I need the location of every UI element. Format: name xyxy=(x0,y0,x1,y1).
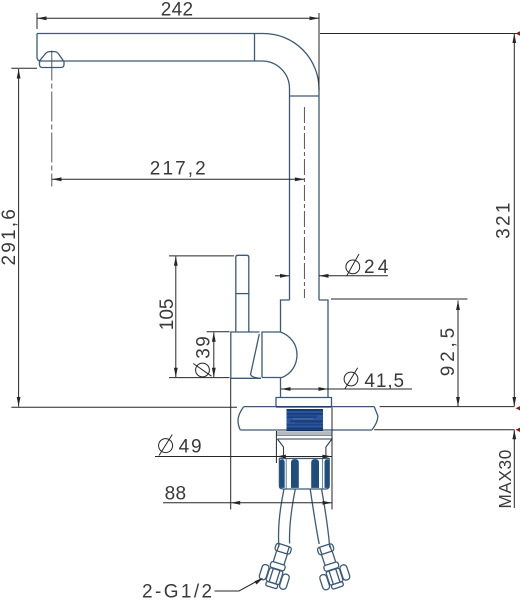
dimension 88 line xyxy=(163,502,332,504)
counter slab top edge left xyxy=(244,406,276,408)
dimension 88 arrow right xyxy=(323,501,333,505)
dimension 105/O39 extension bottom xyxy=(169,377,230,379)
dimension O39 phi symbol rotated xyxy=(193,363,211,377)
dimension 217,2 line xyxy=(52,178,304,180)
dimension 242 line xyxy=(37,17,319,19)
washer under counter xyxy=(276,431,333,435)
aerator centerline xyxy=(51,51,53,187)
dimension 92,5 arrow top xyxy=(456,301,460,311)
dimension 105 extension top xyxy=(169,255,234,257)
dimension 217,2 arrow left xyxy=(52,177,62,181)
handle mount block xyxy=(231,332,261,378)
dimension O24 arrow right xyxy=(319,274,329,278)
aerator ring block xyxy=(40,61,65,68)
spout top extension line to 321 xyxy=(320,33,519,35)
dimension O39 line xyxy=(213,332,215,377)
dimension O24 phi symbol xyxy=(346,254,360,276)
dimension 88 extension left xyxy=(230,379,232,510)
counter slab broken end left xyxy=(238,407,244,430)
mounting nut body xyxy=(279,459,329,490)
right hose end fitting xyxy=(311,541,352,592)
pipe seam below bend xyxy=(290,95,320,97)
faucet body cylinder xyxy=(281,300,329,398)
svg-text:105: 105 xyxy=(157,298,178,330)
counter reference line top right xyxy=(380,406,515,408)
dimension 105 arrow top xyxy=(174,256,178,266)
dimension O39 arrow bottom xyxy=(212,368,216,378)
dimension 242 extension line left xyxy=(36,13,38,29)
handle mount diagonal joint xyxy=(251,334,262,378)
spout tube inner profile xyxy=(40,61,290,96)
dimension 291,6 arrow bottom xyxy=(17,397,21,407)
red tick top right xyxy=(516,31,520,35)
spout seam at bend start xyxy=(254,34,256,62)
svg-text:49: 49 xyxy=(179,436,204,457)
svg-text:2-G1/2: 2-G1/2 xyxy=(142,581,215,600)
dimension O39 extension top xyxy=(207,331,230,333)
dimension O41,5 phi symbol xyxy=(344,368,358,390)
counter slab bottom edge left xyxy=(240,429,286,431)
dimension 291,6 arrow top xyxy=(17,69,21,79)
dimension O49 arrow right xyxy=(322,455,332,459)
svg-text:92,5: 92,5 xyxy=(438,324,459,376)
nut slot left middle xyxy=(291,459,298,487)
dimension 321 arrow top xyxy=(512,34,516,44)
counter level extension line left xyxy=(11,406,237,408)
handle lever rod xyxy=(236,255,249,332)
dimension 321 arrow bottom xyxy=(512,397,516,407)
dimension O24 arrow left xyxy=(280,274,290,278)
dimension MAX30 line xyxy=(513,430,515,508)
washer bottom edge xyxy=(276,435,333,437)
red tick counter top xyxy=(516,406,520,410)
left hose end fitting xyxy=(257,541,298,592)
dimension O39 arrow top xyxy=(212,332,216,342)
dimension 321 line xyxy=(513,34,515,407)
dimension 105 arrow bottom xyxy=(174,368,178,378)
dimension O24 tail left xyxy=(275,275,290,277)
svg-text:242: 242 xyxy=(161,0,194,20)
dimension 242 arrow left xyxy=(37,16,47,20)
dimension 242 arrow right xyxy=(310,16,320,20)
nut facet line right xyxy=(321,459,323,489)
nut facet line left xyxy=(285,459,287,489)
aerator nose dome xyxy=(40,52,64,61)
vertical pipe left edge xyxy=(289,96,291,300)
cone spacer trapezoid xyxy=(277,439,332,458)
dimension 92,5 line xyxy=(457,301,459,407)
left hose inner edge xyxy=(290,489,296,544)
dimension O49 extension left xyxy=(275,431,277,463)
dimension O41,5 arrow left xyxy=(281,387,291,391)
dimension 291,6 line xyxy=(18,69,20,407)
svg-text:39: 39 xyxy=(194,335,215,359)
left hose outer edge xyxy=(279,489,284,547)
counter slab broken end right xyxy=(372,407,378,430)
svg-text:217,2: 217,2 xyxy=(150,159,208,180)
label 2-G1/2 leader arrow xyxy=(255,578,264,585)
dimension O41,5 arrow right xyxy=(319,387,329,391)
label 2-G1/2 leader xyxy=(215,579,262,591)
svg-text:41,5: 41,5 xyxy=(364,371,405,392)
svg-text:24: 24 xyxy=(364,257,392,278)
threaded shank hatched section xyxy=(287,409,324,431)
flange bottom dark edge xyxy=(276,406,332,408)
dimension 242 extension line right xyxy=(318,13,320,90)
nut slot right middle xyxy=(312,459,319,487)
dimension 105 line xyxy=(175,256,177,377)
right hose inner edge xyxy=(310,489,319,544)
spout left end xyxy=(37,34,41,62)
dimension 88 arrow left xyxy=(231,501,241,505)
dimension 92,5 extension top xyxy=(331,298,468,300)
spout tube outer profile xyxy=(37,34,319,97)
red tick counter bottom xyxy=(516,428,520,432)
nut slot clipped left xyxy=(280,460,285,488)
svg-text:321: 321 xyxy=(493,200,514,239)
counter slab top edge right xyxy=(332,406,375,408)
dimension 92,5 arrow bottom xyxy=(456,397,460,407)
dome cap on body front xyxy=(262,332,297,378)
dimension 217,2 arrow right xyxy=(295,177,305,181)
dimension O49 arrow left xyxy=(276,455,286,459)
counter reference line bottom right xyxy=(374,429,514,431)
dimension O49 phi symbol xyxy=(159,435,173,456)
dimension 291,6 extension top xyxy=(11,67,37,69)
right hose outer edge xyxy=(322,489,330,547)
dimension O24 leader right xyxy=(319,275,388,277)
vertical pipe right edge xyxy=(318,96,320,300)
svg-text:MAX30: MAX30 xyxy=(495,449,515,508)
pipe centerline dash-dot xyxy=(303,107,305,298)
svg-text:291,6: 291,6 xyxy=(0,207,20,266)
dimension O49 line xyxy=(155,456,332,458)
svg-text:88: 88 xyxy=(165,483,187,504)
dimension 88 extension right xyxy=(331,408,333,510)
base flange xyxy=(276,398,332,408)
handle rod seam xyxy=(236,293,249,295)
dimension MAX30 arrow xyxy=(512,430,516,440)
nut slot clipped right xyxy=(325,460,329,488)
dimension O41,5 line xyxy=(281,388,412,390)
counter slab bottom edge right xyxy=(323,429,372,431)
